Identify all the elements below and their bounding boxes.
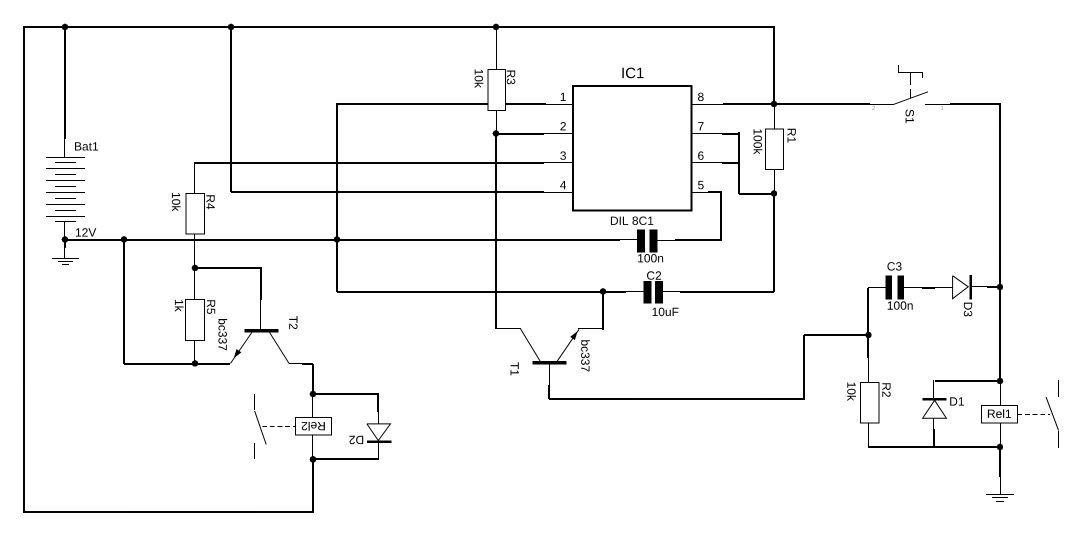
node 12V [62, 236, 69, 243]
wire riser x313 [312, 459, 314, 513]
node C3/R2 [865, 332, 872, 339]
wire top rail [23, 26, 775, 28]
wire x231 pin4 drop [228, 24, 235, 31]
node Rel2 bottom [310, 456, 317, 463]
op-amp IC1 [560, 68, 723, 211]
resistor R5 [175, 268, 215, 364]
capacitor C1 100n [611, 192, 722, 263]
wire Rel2 bottom to D2 [313, 458, 379, 460]
wire pin2 [496, 133, 544, 135]
wire right border mid [999, 287, 1001, 381]
pin 7 [698, 122, 704, 130]
ground [52, 240, 79, 265]
wire T1 collector run [549, 335, 870, 400]
relay contact K2 [255, 394, 296, 459]
ground right [986, 447, 1014, 502]
wire T2 emitter run [124, 363, 230, 365]
wire 12V rail [65, 239, 620, 241]
resistor R2 [847, 335, 891, 447]
battery Bat1 [46, 26, 98, 240]
wire bottom right [868, 446, 1001, 448]
wire right border upper [999, 103, 1001, 286]
resistor R3 [493, 24, 500, 31]
node battery/top rail [62, 24, 69, 31]
node R4/R5 [192, 265, 199, 272]
relay Rel2 [296, 394, 332, 460]
wire top right drop [773, 26, 775, 104]
wire pins 6/7 loop [722, 132, 774, 194]
pin 8 [698, 93, 704, 102]
node T2 collector / Rel2 top [310, 391, 317, 398]
relay contact K1 [1046, 380, 1059, 448]
transistor T1 [511, 292, 605, 399]
wire x124 down [123, 240, 125, 364]
node D3 / right border [997, 284, 1004, 291]
node pin8 [771, 101, 778, 108]
diode D3 [953, 275, 1000, 316]
node rail/loop [121, 236, 128, 243]
pin 3 [560, 151, 566, 160]
node R5 bottom [192, 360, 199, 367]
resistor R1 [754, 104, 796, 194]
wire Rel2 top to D2 [313, 393, 379, 395]
transistor T2 [218, 316, 313, 394]
diode D2 [349, 393, 391, 460]
pin 1 [561, 93, 566, 101]
wire pin1 loop [337, 103, 626, 292]
pin 6 [698, 151, 704, 160]
wire T2 base [195, 267, 262, 300]
capacitor C2 10uF [626, 271, 774, 316]
pin 2 [560, 122, 566, 130]
relay Rel1 [982, 380, 1051, 447]
wire left border [23, 26, 25, 512]
wire R3 node to T1 [495, 134, 497, 329]
pin 5 [698, 181, 704, 189]
wire pin8 to S1 [723, 103, 870, 105]
switch S1 [872, 65, 1000, 123]
node C2 / T1 emitter [600, 288, 607, 295]
wire R1 bottom to C2 line [773, 194, 775, 292]
node D1/Rel1 top [997, 378, 1004, 385]
capacitor C3 100n [868, 262, 953, 335]
wire bottom left [23, 511, 314, 513]
node R1 bottom [771, 190, 778, 197]
wire pin3 [195, 162, 544, 164]
node Rel1 bottom [997, 444, 1004, 451]
wire pin4 [231, 191, 544, 193]
diode D1 [923, 380, 1000, 447]
pin 4 [560, 181, 566, 189]
resistor R4 [172, 162, 215, 269]
